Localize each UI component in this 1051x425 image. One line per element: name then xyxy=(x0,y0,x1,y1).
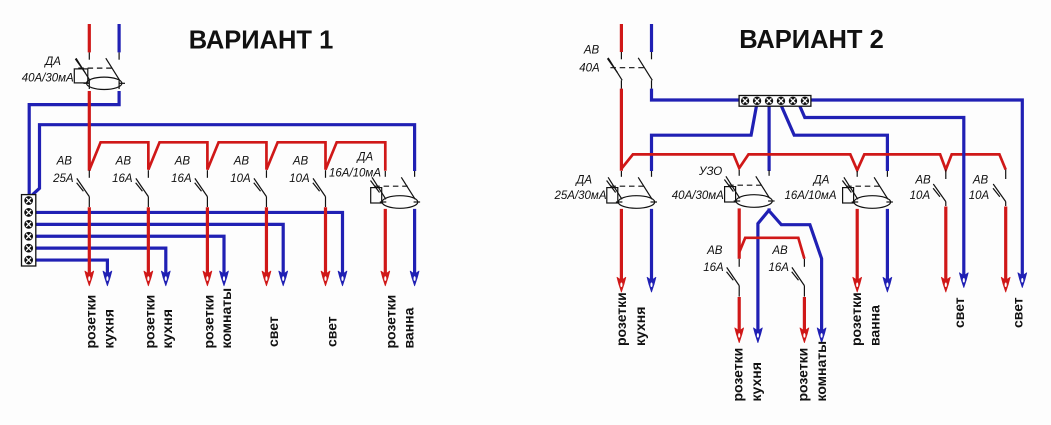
svg-text:АВ: АВ xyxy=(115,156,132,168)
svg-text:розетки: розетки xyxy=(795,348,811,402)
svg-text:АВ: АВ xyxy=(706,245,723,257)
svg-text:16А/10мА: 16А/10мА xyxy=(784,190,836,202)
svg-text:свет: свет xyxy=(323,316,339,347)
svg-text:25А/30мА: 25А/30мА xyxy=(553,190,606,202)
svg-text:10А: 10А xyxy=(289,173,310,185)
svg-text:УЗО: УЗО xyxy=(698,166,722,178)
svg-text:ванна: ванна xyxy=(400,307,416,348)
svg-text:10А: 10А xyxy=(230,173,251,185)
svg-text:40А: 40А xyxy=(579,62,600,74)
svg-text:ВАРИАНТ 2: ВАРИАНТ 2 xyxy=(739,26,884,54)
svg-text:АВ: АВ xyxy=(233,156,250,168)
svg-text:40А/30мА: 40А/30мА xyxy=(22,72,74,84)
svg-text:АВ: АВ xyxy=(583,45,600,57)
svg-text:ДА: ДА xyxy=(43,56,61,68)
svg-text:25А: 25А xyxy=(52,173,74,185)
svg-text:комнаты: комнаты xyxy=(218,288,234,349)
svg-text:свет: свет xyxy=(1009,297,1025,328)
svg-text:16А: 16А xyxy=(768,262,789,274)
svg-text:розетки: розетки xyxy=(729,348,745,402)
svg-text:АВ: АВ xyxy=(771,245,788,257)
svg-text:10А: 10А xyxy=(910,190,931,202)
svg-text:АВ: АВ xyxy=(56,156,73,168)
svg-text:АВ: АВ xyxy=(914,174,931,186)
svg-text:10А: 10А xyxy=(969,190,990,202)
svg-text:розетки: розетки xyxy=(848,292,864,346)
svg-text:16А: 16А xyxy=(112,173,133,185)
svg-text:ДА: ДА xyxy=(574,174,592,186)
svg-text:ДА: ДА xyxy=(355,151,373,163)
svg-text:кухня: кухня xyxy=(632,307,648,346)
svg-text:40А/30мА: 40А/30мА xyxy=(672,190,724,202)
svg-text:ванна: ванна xyxy=(867,305,883,346)
svg-text:розетки: розетки xyxy=(200,295,216,349)
svg-text:АВ: АВ xyxy=(292,156,309,168)
svg-text:16А/10мА: 16А/10мА xyxy=(329,167,381,179)
svg-text:кухня: кухня xyxy=(159,309,175,348)
svg-text:розетки: розетки xyxy=(382,295,398,349)
svg-text:16А: 16А xyxy=(171,173,192,185)
svg-text:кухня: кухня xyxy=(748,362,764,401)
svg-text:свет: свет xyxy=(951,297,967,328)
svg-text:кухня: кухня xyxy=(100,309,116,348)
svg-text:свет: свет xyxy=(265,316,281,347)
svg-text:комнаты: комнаты xyxy=(813,341,829,402)
svg-text:ДА: ДА xyxy=(812,174,830,186)
svg-text:АВ: АВ xyxy=(174,156,191,168)
svg-text:ВАРИАНТ 1: ВАРИАНТ 1 xyxy=(189,27,334,55)
svg-text:розетки: розетки xyxy=(613,292,629,346)
svg-text:АВ: АВ xyxy=(972,174,989,186)
svg-text:16А: 16А xyxy=(703,262,724,274)
svg-text:розетки: розетки xyxy=(141,295,157,349)
svg-text:розетки: розетки xyxy=(82,295,98,349)
